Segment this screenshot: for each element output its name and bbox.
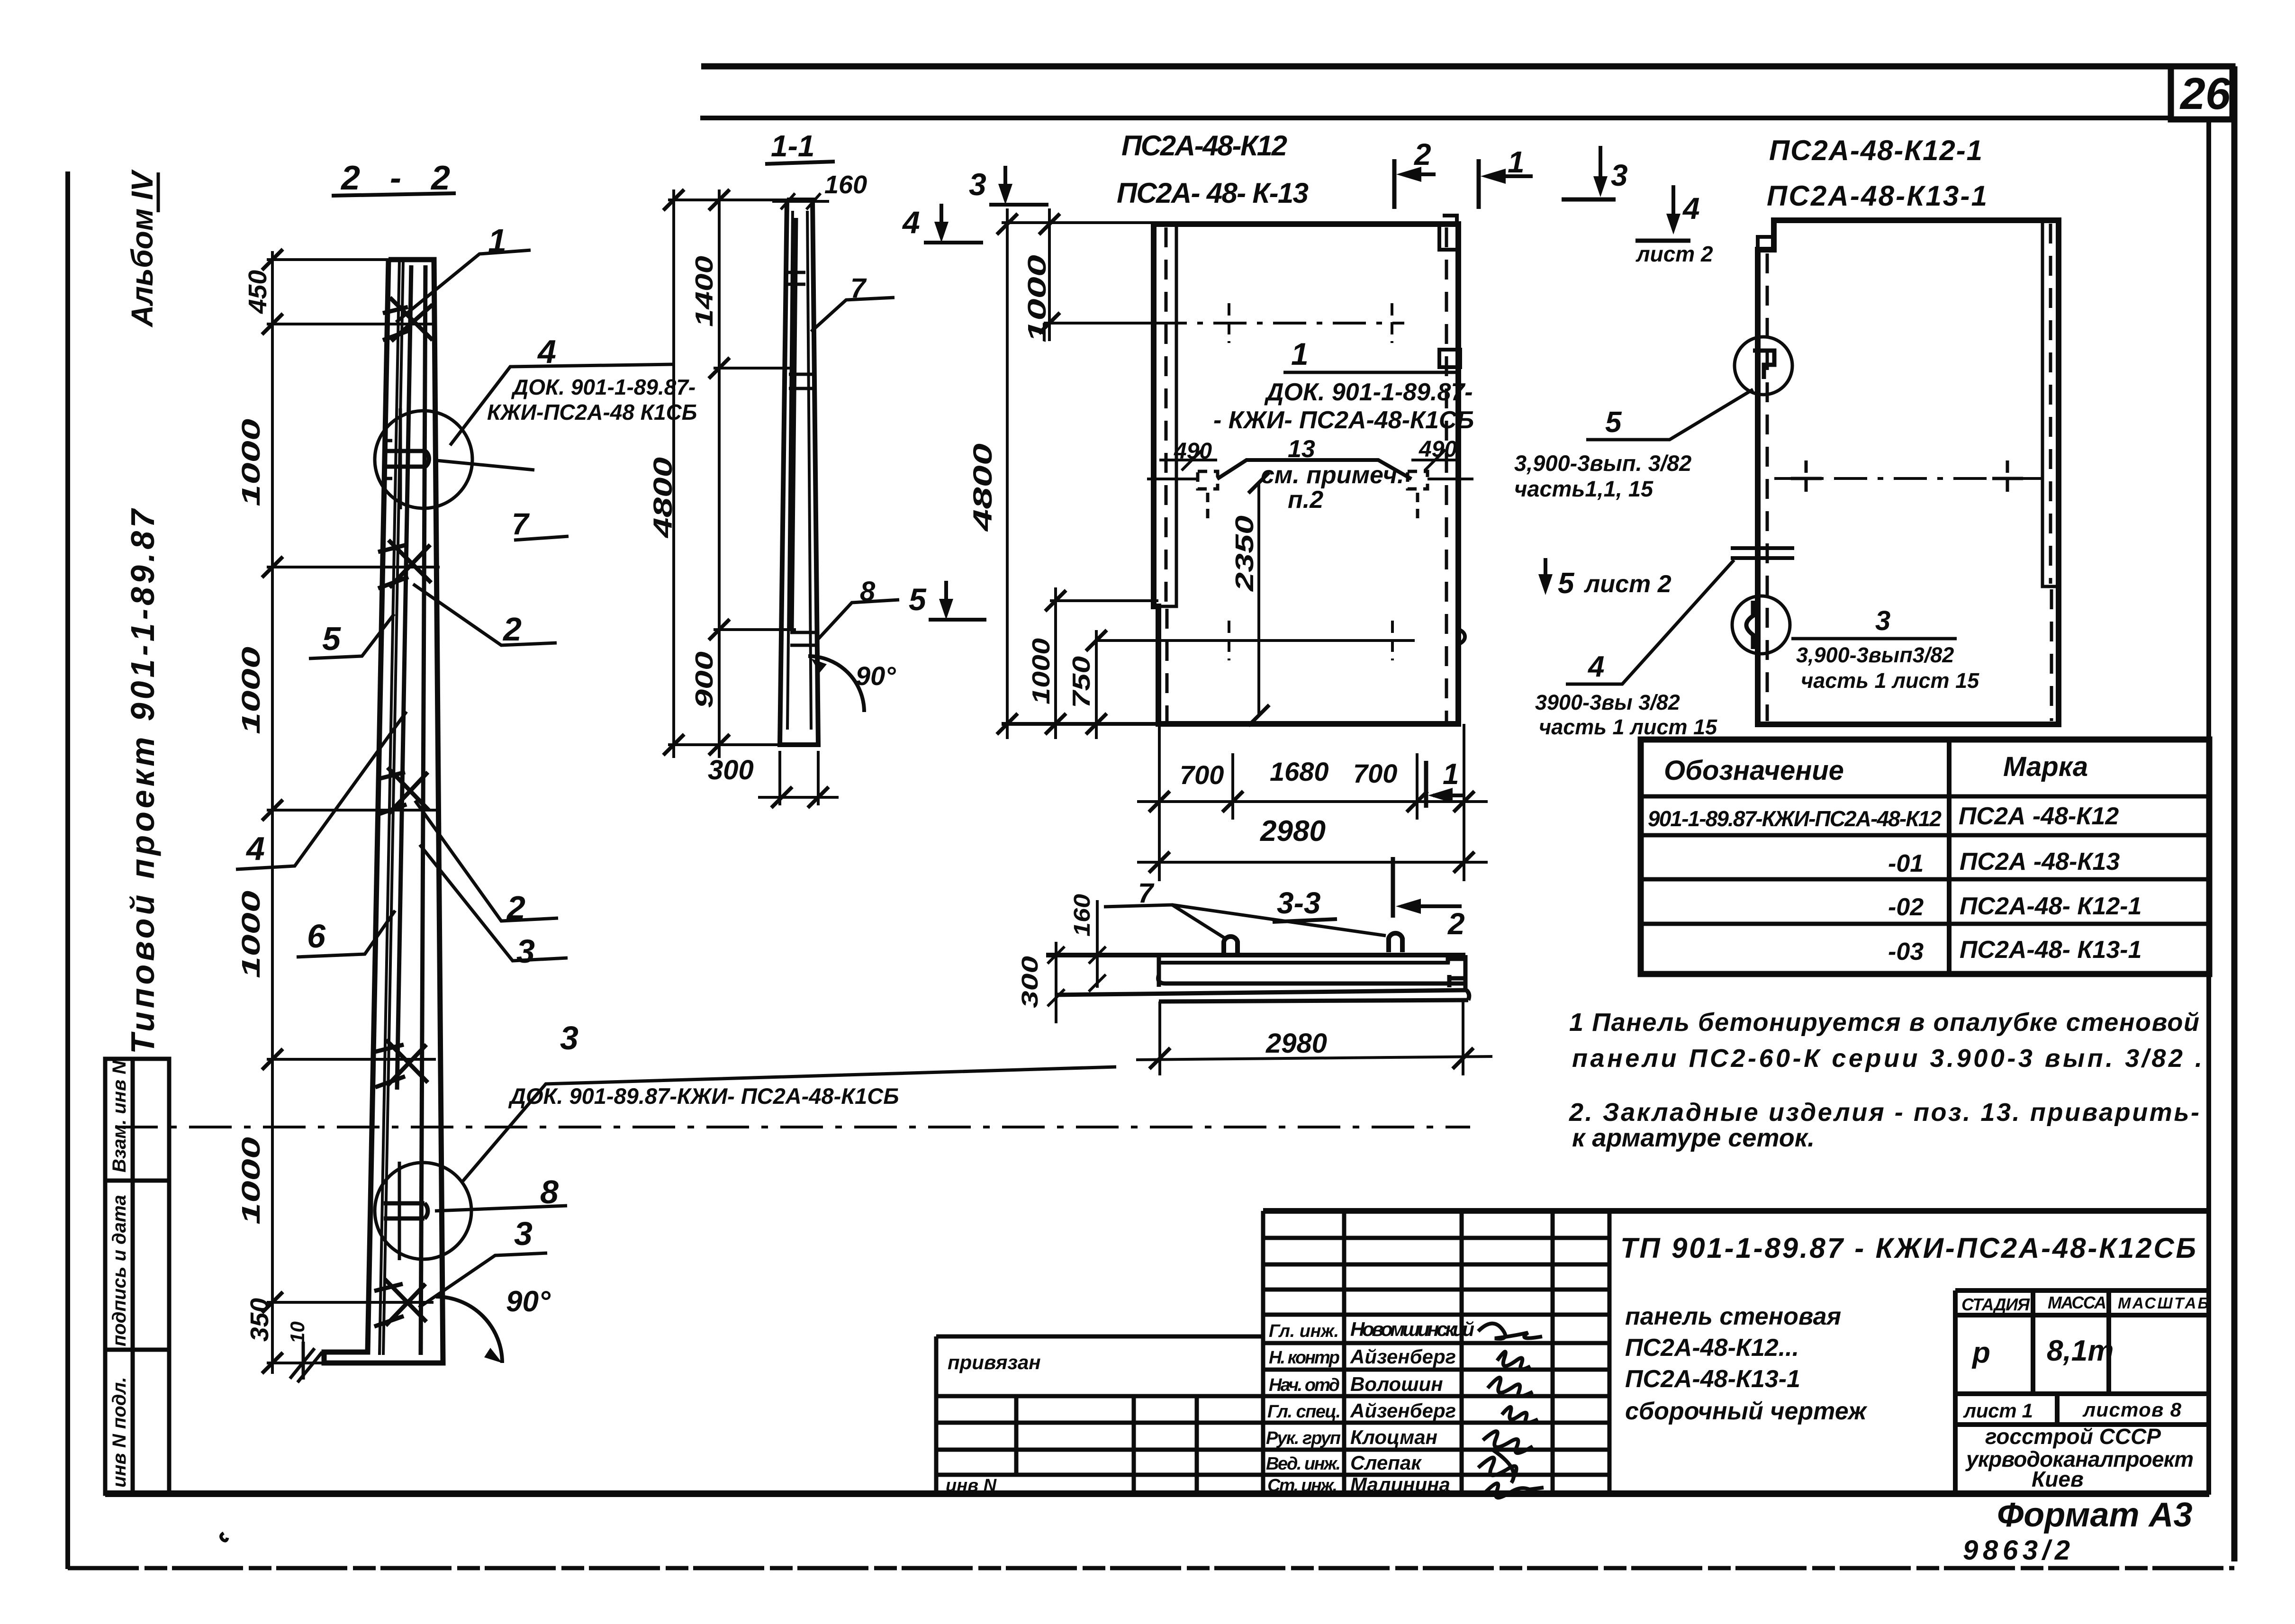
section 1-1 extension lines [668,200,796,745]
svg-text:7: 7 [512,507,530,541]
stray pen mark [221,1533,227,1541]
svg-text:часть1,1, 15: часть1,1, 15 [1514,476,1653,501]
svg-text:ТП 901-1-89.87 - КЖИ-ПС2А-48-К: ТП 901-1-89.87 - КЖИ-ПС2А-48-К12СБ [1620,1232,2196,1264]
section 2-2 panel inner lines [379,260,403,1355]
svg-text:ПС2А- 48- К-13: ПС2А- 48- К-13 [1117,177,1309,209]
section marker 5 down [909,581,986,620]
svg-text:2. Закладные изделия - поз. 1: 2. Закладные изделия - поз. 13. приварит… [1569,1098,2199,1127]
section marker 1 top [1479,145,1533,209]
svg-text:1000: 1000 [1028,638,1055,704]
svg-text:2: 2 [1414,137,1431,171]
extension at 682 [1044,322,1154,325]
svg-text:-01: -01 [1888,850,1924,877]
label 3 underline [1791,637,1957,641]
svg-text:3: 3 [969,167,986,202]
label 3 first flag [420,845,568,961]
svg-text:1000: 1000 [1023,255,1051,343]
section 2-2 panel outline [324,260,443,1363]
middle elevation line lower [1096,639,1415,642]
bottom extension long [1002,722,1458,726]
label 6 flag [297,911,395,957]
frame left border [65,171,70,1569]
svg-text:1: 1 [1508,145,1525,179]
svg-text:6: 6 [307,918,326,955]
svg-text:4: 4 [245,830,265,867]
label 4 lower flag [236,712,407,869]
middle elevation outline [1154,224,1458,724]
label 1 flag [396,250,531,322]
svg-text:3: 3 [1611,158,1628,192]
svg-text:лист 2: лист 2 [1635,242,1713,266]
section 1-1 panel inner lines [787,211,811,730]
sidebar stamp column [105,1059,169,1494]
marks table outline [1641,740,2209,974]
svg-text:листов 8: листов 8 [2082,1398,2182,1421]
plus mark left [1791,460,1822,496]
right elevation outline [1758,220,2059,724]
signature roles column [1266,1321,1341,1496]
svg-text:привязан: привязан [948,1351,1041,1373]
svg-text:Нач. отд: Нач. отд [1269,1375,1340,1395]
svg-text:СТАДИЯ: СТАДИЯ [1961,1295,2030,1314]
weld mark 3 [377,767,429,815]
frame right inner border [2206,119,2211,1495]
bottom long line of title region [105,1490,2209,1497]
svg-text:панели ПС2-60-К серии 3.900-: панели ПС2-60-К серии 3.900-3 вып. 3/82 … [1572,1044,2202,1073]
underline of IV [157,172,160,212]
frame right outer border [2232,66,2238,1561]
svg-text:инв N: инв N [946,1476,997,1496]
svg-text:Ст. инж.: Ст. инж. [1267,1476,1337,1496]
stadia massa masshtab cells [1955,1290,2209,1495]
svg-text:3,900-3вып. 3/82: 3,900-3вып. 3/82 [1514,451,1691,476]
label 3 third flag [419,1253,547,1308]
svg-text:90°: 90° [506,1285,551,1318]
label 8 flag 1-1 [817,600,899,641]
svg-text:160: 160 [824,171,867,199]
section 1-1 title underline [765,162,835,164]
svg-text:300: 300 [708,755,754,785]
svg-text:Гл. спец.: Гл. спец. [1267,1402,1341,1422]
svg-text:ПС2А -48-К13: ПС2А -48-К13 [1960,848,2120,875]
svg-text:10: 10 [286,1321,308,1344]
svg-text:Марка: Марка [2003,751,2088,782]
svg-text:лист 1: лист 1 [1963,1399,2033,1422]
svg-text:4: 4 [1587,650,1604,683]
svg-text:900: 900 [691,651,718,708]
detail circle upper [375,411,472,508]
svg-text:Формат А3: Формат А3 [1997,1496,2193,1534]
right elevation right rib [2042,220,2059,721]
svg-text:4: 4 [902,205,920,240]
section marker 3 down [969,166,1048,205]
svg-text:26: 26 [2179,69,2231,119]
lower tick right [1391,621,1394,660]
dimension 10 ticks [290,1342,322,1382]
section marker 1 bottom right [1426,758,1465,808]
svg-text:Клоцман: Клоцман [1350,1426,1437,1448]
label 5 flag [309,614,394,659]
section 1-1 joint notches [788,272,817,645]
middle elevation dim 1000 bottom [1054,587,1057,739]
svg-text:часть 1 лист 15: часть 1 лист 15 [1539,715,1717,739]
section 2-2 dimension ticks [262,249,283,1373]
svg-text:- КЖИ- ПС2А-48-К1СБ: - КЖИ- ПС2А-48-К1СБ [1213,406,1474,434]
90 degree arc arrowhead [484,1348,502,1363]
marker 5 list2 [1538,558,1672,600]
weld mark 5 [374,1279,426,1326]
svg-text:4: 4 [1682,191,1700,226]
svg-text:КЖИ-ПС2А-48 К1СБ: КЖИ-ПС2А-48 К1СБ [487,400,697,424]
svg-text:Н. контр: Н. контр [1269,1348,1340,1368]
svg-text:к арматуре сеток.: к арматуре сеток. [1572,1124,1815,1152]
svg-text:р: р [1971,1336,1990,1369]
svg-text:Взам. инв N: Взам. инв N [109,1060,130,1173]
label 3 doc flag [463,1067,1116,1181]
middle elevation right dashed line [1445,227,1448,721]
svg-text:Киев: Киев [2032,1467,2084,1491]
privyazan box [936,1336,1263,1495]
svg-text:Айзенберг: Айзенберг [1350,1345,1456,1368]
svg-text:Малинина: Малинина [1350,1473,1450,1496]
middle elevation dim 4800 [1006,208,1009,739]
section 3-3 lifting loop left [1224,937,1238,955]
section 1-1 dim 4800 line [672,189,675,758]
label 7 flag [514,536,569,540]
svg-text:160: 160 [1070,894,1095,937]
section 2-2 extension lines [267,260,440,1363]
section marker 4 down list2 [1635,185,1713,266]
centerline tick right [1391,303,1393,343]
weld mark 2 [378,540,431,588]
svg-text:-02: -02 [1888,893,1924,921]
svg-text:госстрой СССР: госстрой СССР [1985,1424,2161,1449]
svg-text:Альбом IV: Альбом IV [125,169,159,328]
svg-text:ПС2А-48-К12-1: ПС2А-48-К12-1 [1769,135,1982,166]
svg-text:ПС2А-48-К13-1: ПС2А-48-К13-1 [1625,1365,1800,1393]
page number box [2171,66,2232,119]
middle elevation top right notch [1439,216,1458,250]
svg-text:2: 2 [502,611,522,648]
marks table column divider [1947,740,1952,974]
leader line to loop 7 [437,460,534,470]
90 degree arc 1-1 [808,656,864,712]
svg-text:1: 1 [1443,758,1459,791]
signature names column [1350,1318,1474,1496]
svg-text:3: 3 [516,933,535,970]
svg-text:МАССА: МАССА [2048,1293,2106,1312]
svg-text:5: 5 [1558,567,1575,600]
svg-text:90°: 90° [856,661,896,691]
svg-text:8,1т: 8,1т [2047,1335,2114,1367]
svg-text:450: 450 [244,270,272,314]
embed loop in upper circle [385,408,429,509]
middle elevation top extension [1002,221,1154,224]
label 4 underline flag [1566,560,1734,684]
section 1-1 panel outline [780,200,818,745]
svg-text:лист 2: лист 2 [1583,570,1672,598]
svg-text:п.2: п.2 [1288,486,1323,514]
embed 13 side extension lines [1147,478,1473,480]
svg-text:300: 300 [1018,956,1043,1008]
svg-text:1000: 1000 [237,891,265,978]
svg-text:700: 700 [1180,760,1224,790]
embed 13 trapezoid [1217,460,1411,479]
dim 2980 line [1137,861,1488,864]
svg-text:часть 1 лист 15: часть 1 лист 15 [1801,668,1979,693]
svg-text:1 Панель бетонируется в опа: 1 Панель бетонируется в опалубке стеново… [1569,1008,2199,1037]
svg-text:панель стеновая: панель стеновая [1625,1303,1841,1330]
middle elevation right lower notch [1458,629,1465,644]
section 1-1 dim chain line [718,189,721,758]
svg-text:5: 5 [1605,406,1622,439]
svg-text:901-1-89.87-КЖИ-ПС2А-48-К12: 901-1-89.87-КЖИ-ПС2А-48-К12 [1648,806,1942,831]
section 3-3 lifting loop right [1389,933,1402,952]
svg-text:13: 13 [1288,435,1315,463]
svg-text:Рук. груп: Рук. груп [1266,1428,1341,1448]
svg-text:ПС2А-48-К12: ПС2А-48-К12 [1121,130,1287,162]
90 degree arc bottom [436,1297,502,1363]
label 2 lower flag [415,801,558,921]
svg-text:Вед. инж.: Вед. инж. [1266,1454,1341,1474]
embed 13 left pad [1198,471,1218,519]
section marker 2 bottom [1393,857,1465,941]
middle elevation dim 750 [1095,630,1098,739]
section 3-3 panel body [1046,955,1469,1001]
marks table row lines [1641,796,2209,924]
svg-text:1000: 1000 [237,647,265,734]
svg-text:3: 3 [560,1020,578,1056]
svg-text:Новомшинский: Новомшинский [1350,1318,1474,1340]
svg-text:1-1: 1-1 [771,129,815,163]
weld mark top [383,298,433,341]
svg-text:Гл. инж.: Гл. инж. [1269,1321,1339,1341]
section marker 3 down right [1562,146,1628,199]
svg-text:ПС2А -48-К12: ПС2А -48-К12 [1959,803,2119,830]
dimension 160 line [772,193,829,209]
weld mark 4 [375,1040,428,1087]
svg-text:750: 750 [1068,656,1095,708]
section 1-1 dim ticks [663,189,730,755]
svg-text:4800: 4800 [967,443,997,532]
svg-text:1000: 1000 [237,419,265,506]
svg-text:1000: 1000 [237,1137,265,1225]
section marker 2 top [1394,137,1436,209]
svg-text:-03: -03 [1888,938,1924,965]
dim 2350 [1257,483,1260,715]
svg-text:3: 3 [514,1215,533,1252]
middle elevation right slot notch [1439,350,1460,367]
centerline tick left [1228,303,1230,343]
label 2 upper flag [413,584,557,645]
middle elevation dim 1000 top [1048,208,1051,341]
plus mark right [1992,460,2023,496]
svg-text:4800: 4800 [648,457,678,538]
embed 13 right pad [1408,471,1428,519]
svg-text:1400: 1400 [691,256,718,327]
fold dash-dot line [115,1126,1470,1128]
dim 2980 of 3-3 [1160,1000,1463,1075]
svg-text:ДОК. 901-1-89.87-: ДОК. 901-1-89.87- [1264,379,1473,406]
svg-text:Айзенберг: Айзенберг [1350,1399,1456,1422]
middle elevation left rib lines [1158,224,1176,721]
svg-text:3-3: 3-3 [1277,886,1321,920]
right elevation top left notch [1758,220,1774,250]
svg-text:Типовой проект 901-1-89.87: Типовой проект 901-1-89.87 [124,508,161,1054]
svg-text:см. примеч.: см. примеч. [1261,461,1404,489]
svg-text:350: 350 [245,1298,274,1342]
label 7 flag of 3-3 [1104,905,1386,939]
detail circle lower [375,1163,471,1259]
svg-text:1: 1 [1291,336,1309,371]
frame bottom border [68,1566,2234,1570]
svg-text:Волошин: Волошин [1350,1373,1443,1395]
svg-text:2: 2 [1447,907,1465,941]
signatures table grid [1263,1211,2209,1495]
label 4 upper flag [450,364,673,445]
double bar mark on left edge [1731,548,1794,558]
svg-text:ДОК. 901-89.87-КЖИ- ПС2А-48-К1: ДОК. 901-89.87-КЖИ- ПС2А-48-К1СБ [508,1083,899,1109]
right elevation left dashed line [1766,253,1769,721]
svg-text:2350: 2350 [1230,515,1259,592]
svg-text:сборочный чертеж: сборочный чертеж [1625,1398,1868,1425]
section 2-2 title underline [332,193,456,196]
detail circle A right elevation [1735,337,1792,395]
middle elevation centerline upper [1154,322,1404,325]
svg-text:1680: 1680 [1270,757,1329,786]
project subject cell texts [1625,1303,1868,1425]
section 3-3 underline [1273,919,1337,922]
svg-text:Обозначение: Обозначение [1664,755,1844,786]
label 5 underline [1586,389,1753,440]
frame top line inner [700,116,2171,120]
embed in circle B [1746,601,1753,649]
svg-text:3: 3 [1875,605,1890,636]
svg-text:2980: 2980 [1260,815,1326,848]
label 7 flag 1-1 [811,298,895,332]
bottom dim 700-1680-700 [1159,724,1464,881]
detail circle B right elevation [1732,596,1790,654]
lower tick left [1228,621,1230,660]
svg-text:5: 5 [909,582,927,617]
90 arc arrowhead 1-1 [811,659,827,673]
step extension line [1050,599,1158,602]
svg-text:2-2: 2-2 [340,159,450,197]
svg-text:подпись и дата: подпись и дата [109,1195,130,1346]
svg-text:2980: 2980 [1265,1028,1327,1059]
right elevation centerline [1774,477,2042,480]
svg-text:ПС2А-48- К12-1: ПС2А-48- К12-1 [1960,893,2141,920]
dimension 300 line [758,751,839,808]
section 2-2 rebar bars [397,265,425,1355]
svg-text:700: 700 [1353,758,1397,788]
svg-text:ДОК. 901-1-89.87-: ДОК. 901-1-89.87- [511,375,696,399]
svg-text:3,900-3вып3/82: 3,900-3вып3/82 [1796,643,1954,667]
svg-text:3900-3вы 3/82: 3900-3вы 3/82 [1535,690,1680,714]
signature squiggles [1478,1324,1544,1498]
svg-text:5: 5 [322,620,341,657]
embed in circle A [1753,351,1774,379]
svg-text:Слепак: Слепак [1350,1452,1422,1474]
svg-text:8: 8 [540,1173,559,1210]
svg-text:ПС2А-48-К12...: ПС2А-48-К12... [1625,1334,1799,1362]
section 2-2 dimension line [271,251,274,1374]
svg-text:ПС2А-48- К13-1: ПС2А-48- К13-1 [1960,936,2141,964]
embed loop in lower circle [384,1162,428,1260]
leader 8 line [435,1206,567,1211]
svg-text:инв N подл.: инв N подл. [109,1377,130,1488]
section marker 4 down [902,204,983,243]
frame top line outer [701,63,2234,70]
